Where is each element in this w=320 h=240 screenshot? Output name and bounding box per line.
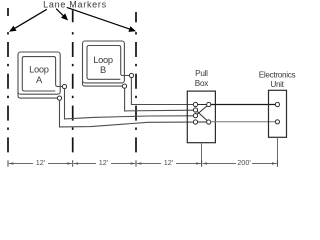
svg-text:Loop: Loop: [29, 65, 49, 75]
leader line below pull box: [201, 143, 203, 164]
arrow to lane marker 2: [56, 9, 63, 16]
arrow to lane marker 3: [67, 7, 130, 29]
pull box: [187, 91, 215, 143]
pull box left terminal 4: [193, 120, 197, 124]
arrow to lane marker 1: [15, 9, 47, 28]
loop B inner turn exit lead: [121, 73, 130, 75]
svg-text:12': 12': [36, 158, 46, 167]
svg-text:Box: Box: [195, 79, 208, 88]
wire: loop B lead 2 to pull box terminal 2: [125, 88, 194, 111]
wire: pull box to electronics unit (lead 1): [211, 104, 275, 106]
wire: loop A lead 2 to pull box terminal 4: [60, 100, 194, 127]
svg-text:B: B: [100, 65, 106, 75]
electronics unit terminal 2: [275, 120, 279, 124]
loop B inner turn: [87, 46, 121, 80]
loop A outer turn: [18, 52, 60, 94]
wire: pull box to electronics unit (lead 2): [211, 121, 275, 123]
jumper: left terminal 1 to right terminal 1: [198, 104, 207, 106]
jumper: left terminal 3 to right terminal 1 (crossing): [197, 106, 207, 114]
loop A inner turn exit lead: [56, 84, 63, 86]
jumper: left terminal 2 to right terminal 2 (crossing): [197, 111, 207, 120]
pull box left terminal 2: [193, 108, 197, 112]
dimension line segments: [9, 163, 33, 165]
svg-text:Lane Markers: Lane Markers: [43, 0, 107, 10]
lane marker line 3: [135, 12, 137, 22]
loop A terminal circle 2 (outer lead): [57, 96, 61, 100]
loop A inner turn: [22, 57, 55, 91]
loop A tail (outermost turn lead): [18, 92, 57, 98]
svg-text:Electronics: Electronics: [259, 71, 296, 80]
loop A terminal circle 1 (inner lead): [62, 84, 66, 88]
lane marker line 2: [72, 10, 74, 22]
loop B terminal circle 2 (outer lead): [122, 84, 126, 88]
svg-text:Unit: Unit: [270, 80, 284, 89]
electronics unit terminal 1: [275, 102, 279, 106]
svg-text:Loop: Loop: [93, 55, 113, 65]
loop B terminal circle 1 (inner lead): [129, 73, 133, 77]
svg-text:Pull: Pull: [195, 69, 208, 78]
leader line below electronics unit: [277, 137, 279, 163]
loop B outer turn: [83, 41, 125, 83]
loop B tail (outermost turn lead): [83, 81, 123, 86]
pull box left terminal 3: [193, 114, 197, 118]
wire: loop B lead 1 to pull box terminal 1: [131, 78, 193, 105]
svg-text:12': 12': [99, 158, 109, 167]
svg-text:200': 200': [237, 158, 251, 167]
dimension ticks: [7, 160, 9, 167]
lane marker line 1: [7, 8, 9, 16]
pull box left terminal 1: [193, 102, 197, 106]
pull box right terminal 2: [207, 120, 211, 124]
svg-text:12': 12': [164, 158, 174, 167]
dimension arrowheads: [9, 162, 14, 164]
jumper: left terminal 4 to right terminal 2: [198, 121, 207, 123]
pull box right terminal 1: [207, 102, 211, 106]
electronics unit: [269, 90, 287, 137]
wire: loop A lead 1 to pull box terminal 3: [65, 89, 194, 119]
